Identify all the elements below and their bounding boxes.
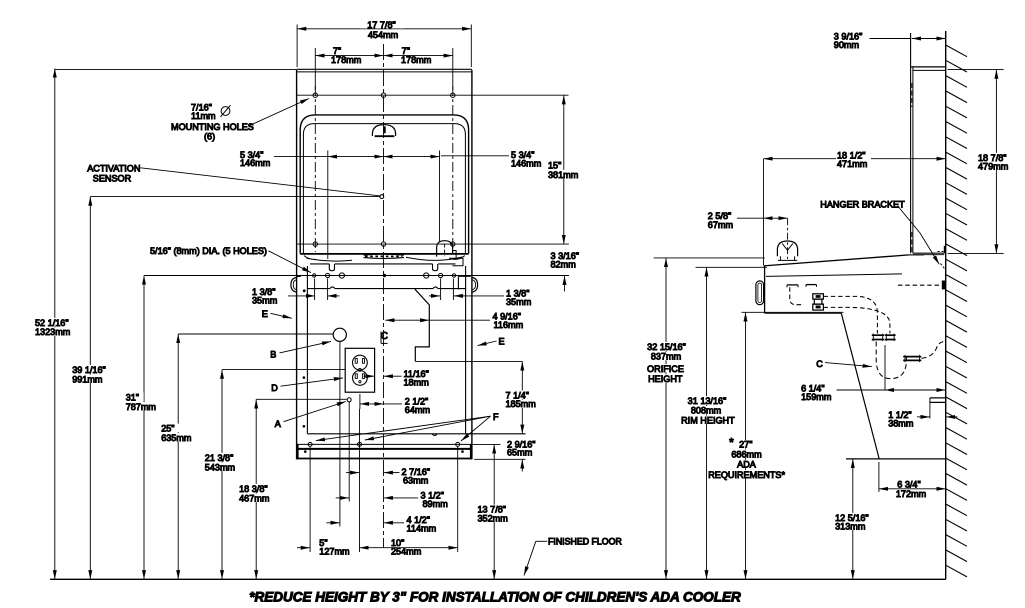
dimension 5 / 127mm	[297, 538, 350, 557]
cabinet inner bottom line	[307, 433, 525, 435]
dimension 4 9/16 / 116mm	[385, 311, 523, 329]
extension column hole A	[348, 402, 350, 502]
bolt hole a	[313, 274, 316, 277]
mounting hole row1 center	[381, 93, 385, 97]
label B	[270, 341, 331, 359]
apron bottom edge	[765, 312, 842, 314]
label A	[275, 402, 346, 430]
svg-text:808mm: 808mm	[691, 406, 721, 416]
basin drain flange	[787, 285, 817, 288]
activation sensor leader	[141, 168, 381, 196]
dimension 31 13/16 rim height	[681, 267, 735, 579]
svg-text:635mm: 635mm	[161, 433, 191, 443]
dimension 1 1/2 / 38mm	[888, 402, 957, 428]
mounting holes centerline row 2	[297, 243, 569, 245]
svg-text:467mm: 467mm	[239, 493, 269, 503]
svg-text:352mm: 352mm	[478, 513, 508, 523]
dimension 6 1/4 / 159mm	[801, 383, 946, 402]
svg-text:787mm: 787mm	[126, 402, 156, 412]
svg-text:E: E	[498, 337, 504, 347]
front panel top edge (double line)	[297, 69, 472, 72]
dimension 18 7/8 / 479mm	[948, 70, 1013, 254]
dimension 4 1/2 / 114mm	[326, 515, 436, 534]
cooler shroud outer outline	[300, 115, 468, 254]
drain tailpiece (hidden)	[790, 287, 804, 305]
svg-text:D: D	[271, 383, 278, 393]
svg-text:17 7/8": 17 7/8"	[367, 20, 396, 30]
extension line rim height	[696, 266, 767, 268]
svg-text:REQUIREMENTS*: REQUIREMENTS*	[708, 470, 785, 480]
dimension 25 / 635mm	[159, 334, 333, 579]
supply fitting at wall	[942, 281, 946, 290]
bolt hole b	[326, 273, 330, 277]
side panel left edge (double)	[911, 33, 913, 253]
dimension 2 5/8 / 67mm	[708, 211, 788, 230]
waste arm to wall (hidden)	[922, 341, 946, 358]
electrical outlet box	[345, 348, 374, 392]
bottom hole right	[456, 442, 460, 446]
dimension 2 1/2 / 64mm	[360, 394, 430, 415]
wall face line	[945, 31, 947, 579]
svg-text:11mm: 11mm	[191, 111, 216, 121]
side panel top cap	[911, 67, 946, 71]
extension line waste height	[415, 360, 522, 362]
svg-text:HANGER BRACKET: HANGER BRACKET	[820, 199, 905, 209]
front panel left edge	[296, 70, 298, 459]
svg-text:543mm: 543mm	[205, 462, 235, 472]
svg-text:*: *	[729, 436, 734, 450]
svg-text:178mm: 178mm	[331, 55, 361, 65]
dimension 52 1/16 / 1323mm overall height	[33, 69, 297, 580]
svg-text:146mm: 146mm	[511, 158, 541, 168]
lower cabinet inner right edge	[465, 266, 467, 434]
side panel hidden hole centerlines	[911, 83, 913, 253]
label E right	[478, 337, 505, 347]
cooler deck top (side view)	[764, 255, 924, 266]
outlet center screw	[358, 369, 361, 372]
mounting hole row2 center	[381, 242, 385, 246]
valve assembly	[813, 294, 824, 310]
mounting hole row2 right	[451, 242, 455, 246]
centerline symbol	[381, 331, 388, 344]
tray dot left	[304, 451, 306, 453]
rivet dot upper	[303, 290, 305, 292]
svg-text:35mm: 35mm	[506, 297, 531, 307]
bolt hole f	[452, 274, 455, 277]
dimension 17 7/8 / 454mm (panel width)	[297, 20, 471, 67]
bottom diagonal edge	[841, 313, 879, 459]
cooler deck inner line	[766, 274, 902, 277]
dimension 13 7/8 / 352mm	[476, 444, 513, 579]
lower cabinet top line	[307, 287, 465, 289]
svg-text:254mm: 254mm	[391, 547, 421, 557]
dimension 18 3/8 / 467mm	[237, 399, 347, 579]
label C	[816, 359, 872, 369]
dimension 3 1/2 / 89mm	[336, 491, 448, 510]
label HANGER BRACKET	[820, 199, 905, 209]
svg-text:116mm: 116mm	[494, 320, 524, 330]
dimension 18 1/2 / 471mm	[764, 150, 946, 169]
pan right step	[458, 276, 470, 289]
svg-text:A: A	[275, 419, 282, 429]
bolt hole c	[339, 273, 344, 278]
mounting hole row1 right	[451, 93, 455, 97]
dimension 21 3/8 / 543mm	[203, 370, 345, 580]
bubbler base (front view right)	[437, 241, 463, 266]
svg-text:ADA: ADA	[737, 460, 757, 470]
dimension 10 / 254mm	[360, 538, 458, 557]
svg-text:F: F	[493, 412, 499, 422]
bottom tray band	[297, 444, 472, 459]
bolt hole center dot	[383, 274, 385, 276]
supply line at wall (hidden)	[898, 284, 941, 286]
bubbler centerline (side)	[787, 218, 789, 259]
wall hatching	[946, 45, 967, 577]
trap outlet fitting	[903, 355, 921, 362]
svg-text:C: C	[381, 331, 388, 342]
svg-text:159mm: 159mm	[801, 392, 831, 402]
dimension 11/16 / 18mm	[364, 369, 429, 387]
svg-text:67mm: 67mm	[708, 220, 733, 230]
extension line at sensor height	[90, 196, 379, 198]
svg-text:B: B	[270, 350, 276, 360]
supply tube lower (hidden)	[824, 307, 890, 333]
dimension 32 15/16 orifice height	[643, 258, 690, 579]
svg-text:MOUNTING HOLES: MOUNTING HOLES	[171, 122, 254, 132]
label FINISHED FLOOR	[524, 537, 622, 576]
dimension 27 ada requirements	[708, 312, 785, 579]
svg-text:89mm: 89mm	[423, 499, 448, 509]
extension column outlet center	[359, 409, 361, 552]
hanger bracket on wall	[938, 246, 946, 253]
tray dot right	[462, 451, 464, 453]
svg-text:454mm: 454mm	[368, 30, 398, 40]
svg-text:C: C	[816, 359, 823, 369]
svg-text:31 13/16": 31 13/16"	[688, 396, 727, 406]
p-trap (hidden)	[876, 342, 906, 379]
svg-text:64mm: 64mm	[405, 405, 430, 415]
svg-text:114mm: 114mm	[407, 523, 437, 533]
svg-text:RIM HEIGHT: RIM HEIGHT	[681, 415, 735, 425]
dimension 31 / 787mm	[124, 276, 160, 580]
mounting hole row2 left	[313, 242, 317, 246]
side panel bottom edge	[913, 253, 944, 255]
svg-text:27": 27"	[739, 440, 752, 450]
trap centerline extension	[884, 345, 886, 390]
svg-text:90mm: 90mm	[834, 40, 859, 50]
dimension 1 3/8 / 35mm left	[252, 279, 340, 306]
bottom hole left	[308, 442, 312, 446]
dimension 2 7/16 / 63mm	[346, 467, 430, 486]
label F with leaders	[316, 412, 499, 441]
svg-text:38mm: 38mm	[888, 418, 913, 428]
svg-text:313mm: 313mm	[835, 521, 865, 531]
bottom notch	[432, 434, 437, 436]
basin slot left	[329, 264, 334, 271]
front edge extension line	[763, 159, 765, 266]
activation sensor dot	[380, 195, 384, 199]
left side tab	[291, 278, 297, 293]
label 7/16 11mm dia mounting holes (6)	[171, 99, 309, 142]
svg-text:ORIFICE: ORIFICE	[647, 364, 684, 374]
hidden centerline left column	[314, 86, 316, 252]
bottom hanger holes line	[297, 443, 501, 445]
dimension 12 5/16 / 313mm	[833, 459, 872, 579]
front panel right edge	[471, 70, 473, 459]
cooler front face	[764, 266, 766, 313]
rivet dot lower	[303, 425, 305, 427]
outlet top receptacle	[353, 355, 368, 370]
basin right contour	[406, 256, 465, 261]
svg-text:FINISHED FLOOR: FINISHED FLOOR	[548, 537, 622, 547]
svg-text:127mm: 127mm	[319, 547, 349, 557]
dimension 2 9/16 / 65mm	[474, 439, 535, 471]
circle B (waste opening)	[333, 328, 346, 341]
extension column hole right	[457, 447, 459, 552]
cooler bottom edge	[846, 458, 946, 460]
label E left	[262, 309, 292, 319]
floor line (finished floor)	[50, 578, 946, 580]
mounting hole row1 left	[313, 93, 317, 97]
extension column hole left	[309, 447, 311, 552]
svg-text:178mm: 178mm	[401, 55, 431, 65]
svg-text:(6): (6)	[204, 132, 215, 142]
basin left contour	[304, 256, 352, 262]
dimension 7 1/4 / 185mm	[504, 361, 538, 433]
svg-text:ACTIVATION: ACTIVATION	[87, 163, 140, 173]
front capsule	[756, 281, 764, 305]
dimension 7in/178mm left + right (hole spacing)	[315, 46, 453, 90]
extension column circle B	[339, 342, 341, 527]
svg-text:381mm: 381mm	[548, 170, 578, 180]
dimension 3 9/16 / 90mm	[834, 32, 946, 51]
bottom hole center	[358, 442, 362, 446]
svg-text:SENSOR: SENSOR	[93, 173, 132, 183]
svg-text:172mm: 172mm	[896, 489, 926, 499]
svg-text:32 15/16": 32 15/16"	[647, 342, 686, 352]
svg-text:1323mm: 1323mm	[35, 327, 70, 337]
svg-text:63mm: 63mm	[403, 476, 428, 486]
svg-text:18mm: 18mm	[404, 378, 429, 388]
bubbler (front view)	[372, 125, 395, 137]
right side tab	[472, 278, 478, 293]
basin rim line	[300, 253, 468, 255]
bolt hole e	[439, 273, 443, 277]
svg-text:35mm: 35mm	[252, 296, 277, 306]
svg-text:146mm: 146mm	[240, 158, 270, 168]
basin drain grille	[364, 254, 405, 258]
mounting holes centerline row 1	[297, 94, 569, 96]
svg-text:E: E	[262, 309, 268, 319]
drain stub at wall	[930, 398, 946, 403]
dimension 3 3/16 / 82mm	[551, 251, 580, 292]
hanger bracket leader	[898, 206, 945, 269]
label 5/16in (8mm) DIA. (5 HOLES)	[150, 246, 311, 273]
svg-text:HEIGHT: HEIGHT	[648, 374, 683, 384]
waste pipe routing (front view)	[415, 289, 429, 361]
note text: reduce height	[249, 590, 741, 605]
union fittings	[872, 334, 896, 342]
bolt hole row line (31in level)	[144, 275, 569, 277]
extension line ada height	[742, 311, 844, 313]
pan left step	[297, 275, 301, 277]
svg-text:*REDUCE HEIGHT BY 3" FOR INSTA: *REDUCE HEIGHT BY 3" FOR INSTALLATION OF…	[249, 590, 741, 605]
svg-text:479mm: 479mm	[978, 162, 1008, 172]
bolt hole d	[424, 273, 429, 278]
outlet bottom receptacle	[353, 371, 368, 386]
svg-text:15": 15"	[548, 160, 561, 170]
svg-text:185mm: 185mm	[506, 399, 536, 409]
dimension 1 3/8 / 35mm right	[429, 279, 531, 308]
svg-text:686mm: 686mm	[731, 449, 761, 459]
bubbler (side view)	[777, 241, 797, 260]
label D	[271, 378, 343, 393]
svg-text:837mm: 837mm	[651, 352, 681, 362]
basin front flange	[310, 263, 456, 265]
basin slot right	[433, 264, 438, 271]
svg-text:5/16" (8mm) DIA. (5 HOLES): 5/16" (8mm) DIA. (5 HOLES)	[150, 246, 267, 256]
svg-text:471mm: 471mm	[837, 159, 867, 169]
extension line orifice height	[654, 257, 765, 259]
label ACTIVATION SENSOR	[87, 163, 140, 183]
dimension 15 / 381mm (hole row spacing)	[546, 95, 580, 244]
lower cabinet inner left edge	[306, 266, 308, 434]
rivet dot mid	[303, 377, 305, 379]
hidden centerline right column	[452, 86, 454, 252]
svg-text:65mm: 65mm	[507, 448, 532, 458]
hole A	[347, 398, 351, 402]
svg-text:991mm: 991mm	[72, 374, 102, 384]
dimension 6 3/4 / 172mm	[879, 462, 946, 499]
supply tube upper (hidden)	[824, 296, 878, 333]
dimension 5 3/4 / 146mm left and right	[240, 150, 541, 259]
cooler shroud inner line	[303, 124, 465, 254]
vertical centerline of front view	[383, 44, 385, 548]
dimension 39 1/16 / 991mm sensor height	[70, 197, 111, 580]
svg-text:82mm: 82mm	[551, 259, 576, 269]
